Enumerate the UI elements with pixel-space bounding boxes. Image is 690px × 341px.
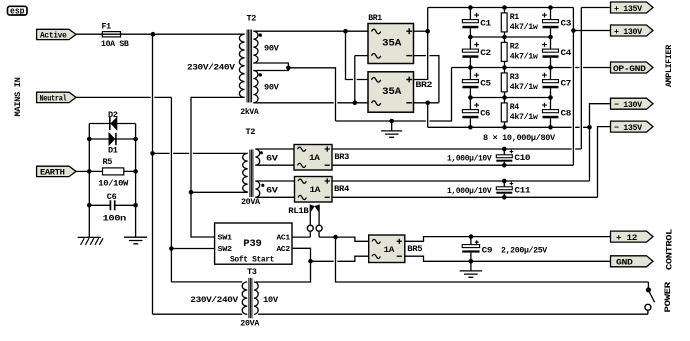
wire loop-breaker left vertical: [88, 124, 90, 238]
wire BR3 + row to +135 (gap at 573.4): [332, 148, 581, 150]
svg-text:2,200µ/25V: 2,200µ/25V: [501, 246, 548, 256]
capacitor C9: [462, 237, 548, 262]
wire OP-GND row3 (gaps at 573.4,581.3): [452, 67, 611, 69]
wire Active bus vertical: [152, 34, 154, 314]
wire SW2 from Neutral bus: [171, 248, 214, 250]
soft start module P39: [215, 223, 292, 265]
svg-text:C6: C6: [107, 192, 117, 202]
T2b secondary 1 (6V): [255, 149, 259, 165]
svg-text:C4: C4: [561, 48, 572, 58]
wire T2 primary bottom: [191, 97, 245, 237]
T2b primary winding: [243, 153, 248, 192]
svg-text:35A: 35A: [382, 39, 401, 50]
connector Neutral: [37, 92, 76, 103]
svg-text:6V: 6V: [266, 186, 279, 196]
wire bank row4: [470, 97, 550, 99]
svg-text:D1: D1: [108, 145, 118, 155]
svg-text:20VA: 20VA: [241, 197, 261, 207]
svg-text:AC1: AC1: [277, 234, 290, 242]
wire T3 secondary bottom to switch: [258, 313, 648, 315]
svg-text:2kVA: 2kVA: [240, 107, 259, 117]
svg-text:R4: R4: [510, 102, 519, 112]
capacitor C4: [542, 37, 571, 68]
capacitor C11: [447, 179, 530, 200]
wire BR3 inputs: [255, 149, 294, 165]
svg-text:BR5: BR5: [407, 244, 422, 254]
wire BR2 upper input (gap at x354.8): [346, 31, 369, 79]
svg-text:4k7/1w: 4k7/1w: [510, 82, 539, 92]
svg-text:10V: 10V: [263, 295, 279, 305]
svg-text:R1: R1: [510, 12, 519, 22]
svg-text:100n: 100n: [103, 213, 127, 223]
svg-text:AC2: AC2: [277, 246, 290, 254]
junction dots lower: [308, 234, 473, 263]
svg-text:20VA: 20VA: [240, 319, 260, 329]
wire AC1 to relay: [292, 236, 310, 238]
capacitor C1: [462, 8, 491, 38]
wire C6 row: [89, 204, 135, 206]
junction dots left: [87, 32, 193, 251]
wire T2 sec1 top to BR1/BR2 inputs: [253, 30, 368, 32]
wire R5 row: [89, 170, 135, 172]
svg-text:10A SB: 10A SB: [101, 39, 129, 49]
wire +130V tag feed: [573, 30, 610, 32]
wire Neutral bus vertical: [170, 97, 172, 282]
ESP logo: [8, 6, 28, 16]
resistor R4: [501, 98, 539, 128]
resistor R2: [501, 37, 539, 68]
svg-text:R3: R3: [510, 72, 519, 82]
wire +135V vertical down to BR3 + row: [580, 8, 582, 150]
resistor R3: [501, 68, 539, 98]
T2 secondary winding 1 (90V): [253, 31, 258, 63]
connector EARTH: [37, 166, 76, 177]
svg-text:1,000µ/10V: 1,000µ/10V: [447, 154, 492, 164]
wire Neutral horizontal (gap at Active bus): [76, 96, 171, 98]
capacitor C6 (bank): [462, 98, 490, 128]
wire BR5 - output to GND: [405, 256, 611, 261]
svg-text:1,000µ/10V: 1,000µ/10V: [447, 186, 492, 196]
wire BR4 inputs: [255, 181, 294, 197]
connector -130V: [611, 98, 654, 110]
svg-text:C6: C6: [480, 109, 490, 119]
connector +130V: [611, 25, 654, 37]
capacitor C6: [103, 192, 127, 223]
capacitor C5: [462, 68, 491, 98]
T3 primary winding: [242, 282, 247, 314]
svg-text:SW1: SW1: [218, 234, 232, 242]
svg-text:10/10W: 10/10W: [98, 179, 129, 189]
power switch: [645, 282, 655, 314]
svg-text:POWER: POWER: [663, 281, 673, 313]
bridge rectifier BR5: [369, 235, 423, 263]
svg-text:T2: T2: [246, 127, 256, 137]
wire relay to BR5 node: [319, 237, 369, 241]
svg-text:RL1B: RL1B: [288, 206, 308, 216]
svg-text:C7: C7: [561, 79, 572, 89]
resistor R1: [501, 8, 539, 38]
chassis ground: [78, 237, 103, 244]
svg-text:4k7/1w: 4k7/1w: [510, 51, 539, 61]
transformer T3: [190, 267, 279, 329]
wire minus node down to -rail: [427, 103, 429, 128]
svg-text:C2: C2: [480, 48, 491, 58]
svg-text:230V/240V: 230V/240V: [190, 295, 239, 305]
capacitor C3: [542, 8, 571, 38]
wire EARTH to loop breaker: [76, 170, 89, 172]
wire T2b primary top from Active bus (gaps at 171.4,191): [153, 152, 248, 154]
wire BR4 - row to -135: [332, 196, 598, 198]
wire BR1 + output: [414, 30, 428, 32]
svg-text:F1: F1: [102, 22, 112, 32]
svg-text:Soft Start: Soft Start: [230, 255, 274, 265]
connector -135V: [611, 121, 654, 133]
wire BR1 lower input: [355, 56, 368, 103]
connector Active: [37, 29, 76, 40]
diode D2: [108, 110, 118, 130]
wire -130V tag feed and vertical: [590, 104, 611, 181]
earth ground: [124, 237, 147, 244]
wire Active to fuse and T2 primary top: [76, 33, 245, 35]
bridge rectifier BR4: [295, 177, 350, 203]
wire +135V tag feed: [581, 7, 610, 9]
transformer T2 (20VA): [241, 127, 279, 207]
ground centre tap: [381, 121, 402, 137]
svg-text:D2: D2: [108, 110, 118, 120]
junction dots bank: [468, 5, 592, 129]
T2b secondary 2 (6V): [255, 181, 259, 197]
svg-text:C3: C3: [561, 19, 572, 29]
bridge rectifier BR3: [294, 145, 349, 171]
svg-text:R2: R2: [510, 42, 519, 52]
wire BR5 + output to +12: [405, 237, 611, 242]
svg-text:C10: C10: [514, 153, 530, 163]
wire BR3 - row to +130: [332, 164, 573, 166]
wire +130V top rail (ends at x573.4): [428, 7, 574, 9]
wire T3 primary bottom from Active: [153, 313, 243, 315]
svg-text:230V/240V: 230V/240V: [187, 63, 236, 73]
T2b core: [250, 150, 253, 198]
wire +130V tap vertical: [572, 8, 574, 166]
svg-text:− 130V: − 130V: [614, 100, 643, 110]
svg-text:+ 130V: + 130V: [614, 27, 643, 37]
T2 polarity dots: [259, 33, 262, 36]
svg-text:CONTROL: CONTROL: [665, 229, 675, 270]
svg-text:C1: C1: [480, 19, 491, 29]
T3 core: [249, 278, 252, 318]
svg-text:4k7/1w: 4k7/1w: [510, 112, 539, 122]
capacitor C2: [462, 37, 491, 68]
junction dots T2/BR area: [286, 29, 430, 123]
svg-text:BR1: BR1: [368, 13, 382, 23]
wire loop-breaker right vertical: [135, 124, 137, 238]
wire mid rail detour with ground (gap at x427.7): [336, 68, 452, 122]
svg-text:C5: C5: [480, 79, 491, 89]
svg-text:R5: R5: [103, 157, 113, 167]
svg-text:1A: 1A: [384, 245, 396, 255]
capacitor C8: [542, 98, 571, 128]
svg-text:T3: T3: [247, 267, 257, 277]
relay contacts RL1B: [288, 205, 322, 238]
diode D1: [108, 133, 118, 156]
T2 secondary winding 2 (90V): [253, 71, 258, 103]
wire T2b primary bottom to SW1: [191, 191, 248, 193]
svg-text:EARTH: EARTH: [40, 168, 65, 178]
svg-text:Neutral: Neutral: [40, 94, 67, 104]
wire sec2 bottom to bridges (gap at tap vertical): [253, 102, 368, 104]
svg-text:GND: GND: [616, 258, 633, 268]
svg-text:BR3: BR3: [334, 152, 349, 162]
bridge rectifier BR1: [368, 13, 414, 64]
T3 secondary winding (10V): [254, 282, 258, 314]
svg-text:BR2: BR2: [416, 80, 433, 90]
wire BR1 - output (gap at x427.7): [414, 56, 439, 103]
wire D1 row: [89, 138, 135, 140]
svg-text:1A: 1A: [309, 153, 321, 163]
svg-text:C11: C11: [514, 185, 530, 195]
svg-text:+ 12: + 12: [616, 233, 637, 243]
svg-text:MAINS IN: MAINS IN: [13, 77, 23, 116]
svg-text:35A: 35A: [382, 87, 401, 98]
svg-text:90V: 90V: [264, 44, 280, 54]
wire -130V bottom rail (gaps at 573.4,581.3): [428, 126, 590, 128]
svg-text:C9: C9: [482, 246, 493, 256]
svg-text:4k7/1w: 4k7/1w: [510, 22, 539, 32]
wire BR2 - output row: [414, 102, 439, 104]
svg-text:BR4: BR4: [334, 184, 349, 194]
svg-text:1A: 1A: [310, 185, 322, 195]
svg-text:OP-GND: OP-GND: [613, 64, 646, 74]
svg-text:90V: 90V: [264, 82, 280, 92]
fuse F1: [101, 22, 129, 50]
svg-text:T2: T2: [247, 14, 257, 24]
wire AC2 node to BR5 - input (gap at 335.5): [311, 256, 369, 261]
capacitor C7: [542, 68, 571, 98]
wire centre tap to ground rail: [288, 68, 335, 121]
svg-text:P39: P39: [243, 239, 262, 250]
connector OP-GND: [611, 62, 654, 74]
svg-text:8 × 10,000µ/80V: 8 × 10,000µ/80V: [483, 133, 556, 143]
connector GND: [611, 256, 654, 268]
wire BR2 + output up to + node (vertical continuous, gap in BR1 - wire): [414, 8, 428, 80]
svg-text:esp: esp: [10, 7, 25, 17]
wire bank row2: [470, 36, 550, 38]
svg-text:SW2: SW2: [218, 246, 232, 254]
resistor R5: [98, 157, 129, 188]
wire D2 row: [89, 123, 135, 125]
wire sec1 tap junction: [253, 63, 288, 71]
ground C9: [460, 261, 483, 277]
svg-text:Active: Active: [40, 31, 67, 41]
svg-text:6V: 6V: [266, 154, 279, 164]
svg-text:− 135V: − 135V: [614, 123, 643, 133]
capacitor C10: [447, 147, 530, 168]
T2 core: [247, 30, 252, 103]
wire -135V tag feed and vertical: [598, 127, 611, 198]
wire T3 primary top from Neutral: [171, 281, 242, 283]
T2 primary winding: [239, 34, 244, 97]
svg-text:AMPLIFIER: AMPLIFIER: [664, 44, 674, 87]
connector +135V: [611, 2, 654, 14]
bridge rectifier BR2: [368, 72, 432, 112]
wire AC1 node down to switch feed: [336, 237, 649, 282]
svg-text:C8: C8: [561, 109, 572, 119]
wire AC2 down: [256, 248, 311, 282]
svg-text:+ 135V: + 135V: [614, 4, 643, 14]
connector +12: [611, 231, 654, 243]
transformer T2 (2kVA): [187, 14, 280, 118]
wire BR4 + row to -130: [332, 180, 590, 182]
